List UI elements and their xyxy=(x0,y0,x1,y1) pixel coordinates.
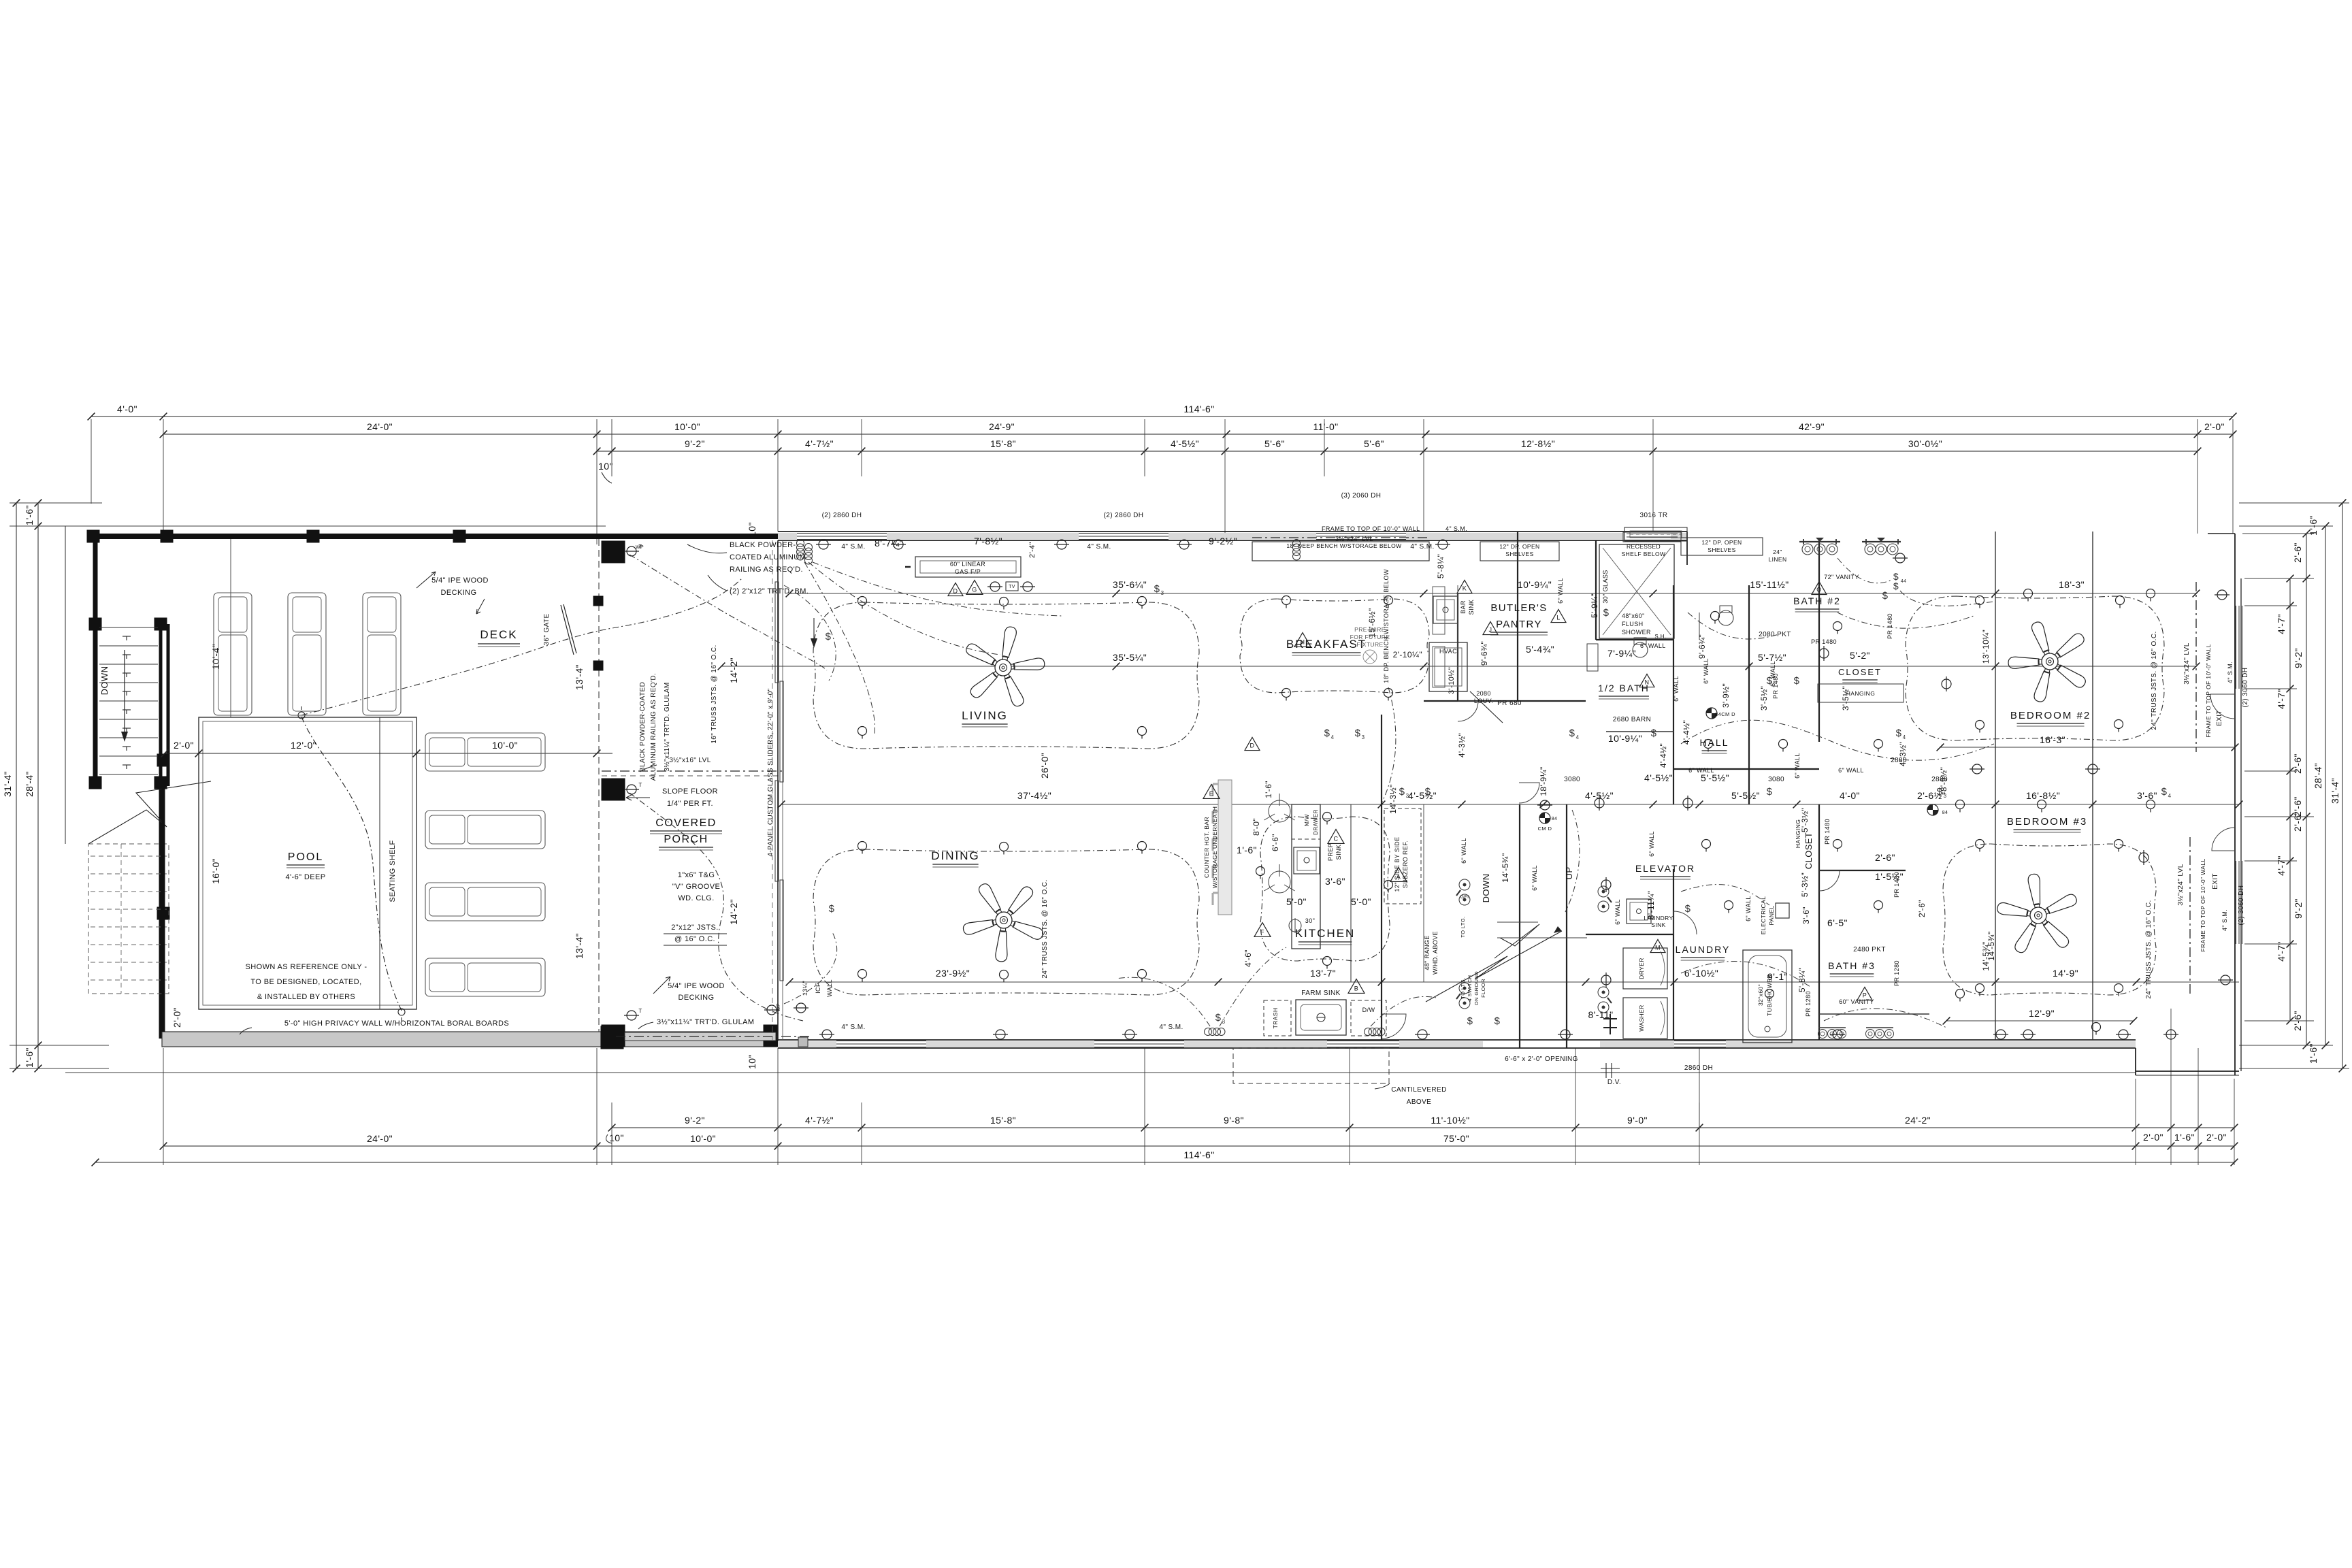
svg-text:1/4" PER FT.: 1/4" PER FT. xyxy=(667,800,713,808)
svg-text:60" VANITY: 60" VANITY xyxy=(1839,998,1874,1005)
upper stair treads xyxy=(99,627,158,628)
svg-text:6'-6": 6'-6" xyxy=(1271,834,1280,851)
TV outlet symbols above fireplace xyxy=(987,582,1002,591)
stair shaft break line xyxy=(1494,924,1539,958)
svg-text:114'-6": 114'-6" xyxy=(1183,1149,1214,1160)
right dim col 28'-4" xyxy=(2325,526,2326,1045)
porch dashed rail line xyxy=(598,539,600,1032)
svg-text:TO BE DESIGNED, LOCATED,: TO BE DESIGNED, LOCATED, xyxy=(250,978,361,986)
svg-text:FRAME TO TOP OF 10'-0" WALL: FRAME TO TOP OF 10'-0" WALL xyxy=(1322,525,1420,532)
svg-text:SEATING SHELF: SEATING SHELF xyxy=(389,840,397,902)
svg-text:9'-0": 9'-0" xyxy=(1627,1115,1648,1126)
svg-text:26'-0": 26'-0" xyxy=(1039,753,1050,779)
svg-text:4'-7½": 4'-7½" xyxy=(805,1115,834,1126)
svg-text:14'-5¾": 14'-5¾" xyxy=(1501,853,1510,882)
svg-text:5'-4¾": 5'-4¾" xyxy=(1526,644,1554,655)
gate rail posts xyxy=(593,596,603,606)
svg-text:5'-6": 5'-6" xyxy=(1264,438,1285,449)
svg-text:2'-0": 2'-0" xyxy=(2204,421,2225,432)
right dim col 31'-4" xyxy=(2342,503,2343,1068)
svg-text:SHELVES: SHELVES xyxy=(1505,551,1533,557)
svg-text:BUTLER'S: BUTLER'S xyxy=(1490,602,1547,614)
wall outlets top wall xyxy=(816,540,831,549)
svg-text:1'-6": 1'-6" xyxy=(2174,1132,2195,1143)
svg-text:24'-0": 24'-0" xyxy=(367,1133,393,1144)
svg-text:& INSTALLED BY OTHERS: & INSTALLED BY OTHERS xyxy=(257,993,355,1001)
wall shower x=2345 xyxy=(1595,540,1597,640)
svg-text:4'-5½": 4'-5½" xyxy=(1171,438,1199,449)
svg-text:FARM SINK: FARM SINK xyxy=(1301,990,1341,997)
svg-text:5'-8¼": 5'-8¼" xyxy=(1797,968,1807,992)
svg-text:10'-9¼": 10'-9¼" xyxy=(1518,579,1552,590)
fanning wires from slider corner xyxy=(808,562,1000,655)
house right wall xyxy=(2234,534,2236,1075)
svg-text:4" S.M.: 4" S.M. xyxy=(2221,909,2228,931)
svg-text:3016 TR: 3016 TR xyxy=(1640,512,1668,519)
wall outlets bottom wall xyxy=(819,1030,834,1039)
svg-text:$: $ xyxy=(1882,590,1889,602)
svg-text:D: D xyxy=(953,588,958,595)
svg-text:16" TRUSS JSTS. @ 16" O.C.: 16" TRUSS JSTS. @ 16" O.C. xyxy=(710,644,718,743)
lower stair dashed outline xyxy=(88,844,169,994)
svg-text:28'-4": 28'-4" xyxy=(24,771,35,797)
svg-text:$: $ xyxy=(1685,903,1691,915)
svg-text:$: $ xyxy=(1399,786,1405,798)
svg-text:$: $ xyxy=(1569,728,1575,739)
ceiling can lights kitchen/breakfast xyxy=(1282,596,1291,605)
svg-text:24" TRUSS JSTS. @ 16" O.C.: 24" TRUSS JSTS. @ 16" O.C. xyxy=(2151,631,2158,730)
wall hvac x=2142 upper xyxy=(1457,593,1458,701)
svg-text:6" WALL: 6" WALL xyxy=(1703,658,1710,684)
svg-text:T: T xyxy=(638,782,642,788)
svg-text:10'-0": 10'-0" xyxy=(492,740,518,751)
svg-text:14'-9": 14'-9" xyxy=(2053,968,2078,979)
svg-text:3'-5½": 3'-5½" xyxy=(1759,686,1769,710)
svg-text:DRAWER: DRAWER xyxy=(1313,809,1319,835)
svg-text:EXIT: EXIT xyxy=(2216,710,2223,726)
svg-text:ALUMINUM RAILING AS REQ'D.: ALUMINUM RAILING AS REQ'D. xyxy=(650,673,657,781)
deck north wall posts xyxy=(87,530,99,542)
house bottom windows xyxy=(836,1041,926,1042)
svg-text:48"x60": 48"x60" xyxy=(1622,612,1645,619)
trash dashed box xyxy=(1264,1000,1291,1036)
svg-text:PANEL: PANEL xyxy=(1768,905,1775,925)
svg-text:10'-4": 10'-4" xyxy=(210,644,221,670)
laundry-bath3 wires xyxy=(1681,885,1769,905)
bath2 sinks on top wall xyxy=(1802,544,1813,555)
svg-text:6" WALL: 6" WALL xyxy=(1614,899,1621,925)
svg-text:H: H xyxy=(1301,638,1305,645)
bath2 wc xyxy=(1718,610,1733,625)
svg-text:PR 1280: PR 1280 xyxy=(1805,991,1812,1017)
svg-text:E: E xyxy=(1209,790,1213,797)
svg-text:$: $ xyxy=(1767,786,1773,798)
HANGING box closet1 xyxy=(1818,684,1904,702)
cantilever dashed rect xyxy=(1233,1048,1389,1083)
svg-text:$: $ xyxy=(2161,786,2168,798)
svg-text:3'-6": 3'-6" xyxy=(1325,876,1345,887)
house bottom wall gray fill segments xyxy=(778,1041,836,1047)
svg-text:CANTILEVERED: CANTILEVERED xyxy=(1391,1086,1447,1094)
svg-text:COATED ALUMINUM: COATED ALUMINUM xyxy=(730,553,806,561)
ceiling fan bedroom3 xyxy=(1996,873,2078,954)
svg-text:CLOSET: CLOSET xyxy=(1838,667,1882,677)
svg-text:3'-10½": 3'-10½" xyxy=(1448,667,1456,694)
dryer box xyxy=(1623,948,1667,989)
svg-text:31'-4": 31'-4" xyxy=(2330,778,2340,804)
bottom dim extension lines xyxy=(163,1048,164,1165)
svg-text:SLOPE FLOOR: SLOPE FLOOR xyxy=(662,787,718,796)
svg-text:4: 4 xyxy=(1331,734,1335,740)
porch corner post SW xyxy=(602,1025,625,1047)
svg-text:RAILING AS REQ'D.: RAILING AS REQ'D. xyxy=(730,566,803,574)
svg-text:4: 4 xyxy=(1903,734,1906,740)
wall kitchen/stair x=2030 xyxy=(1381,715,1382,1040)
svg-text:8'-0": 8'-0" xyxy=(1252,818,1261,836)
bottom-right step-out walls xyxy=(2135,1048,2136,1075)
svg-text:4'-3½": 4'-3½" xyxy=(1457,733,1467,757)
stair right rail (double) xyxy=(159,624,163,1039)
right dim col 4'-7"/9'-2" stack xyxy=(2289,578,2291,1021)
bedroom2 electrical loop xyxy=(1906,596,2164,740)
svg-text:S.H.: S.H. xyxy=(1654,634,1666,640)
kitchen electrical loop xyxy=(1260,817,1390,961)
svg-text:B: B xyxy=(1354,985,1358,992)
svg-text:GAS F/P: GAS F/P xyxy=(955,568,981,575)
svg-text:16'-3": 16'-3" xyxy=(2040,734,2065,745)
svg-text:$: $ xyxy=(826,631,832,642)
svg-text:4'-5½": 4'-5½" xyxy=(1408,790,1437,801)
svg-text:10'-9¼": 10'-9¼" xyxy=(1608,733,1642,744)
svg-text:3: 3 xyxy=(1944,793,1947,799)
porch corner post NE xyxy=(602,541,625,563)
svg-text:3½"x24" LVL: 3½"x24" LVL xyxy=(2177,864,2185,905)
svg-text:4" S.M.: 4" S.M. xyxy=(2227,661,2234,683)
house top wall (double line) xyxy=(778,531,1687,532)
site line y=1576 full width xyxy=(65,1072,2136,1073)
svg-text:5'-0": 5'-0" xyxy=(1351,896,1371,907)
wall x=2570 upper xyxy=(1748,585,1750,804)
bedroom3 electrical loop xyxy=(1943,844,2156,995)
LVL dash-dot bedroom2 x=3227 xyxy=(2195,582,2197,752)
svg-text:DOWN: DOWN xyxy=(99,666,110,696)
svg-text:TRASH: TRASH xyxy=(1272,1008,1279,1029)
svg-text:16'-8½": 16'-8½" xyxy=(2026,790,2060,801)
svg-text:11'-10½": 11'-10½" xyxy=(1431,1115,1469,1126)
bar sink xyxy=(1433,596,1458,623)
svg-text:SHOWER: SHOWER xyxy=(1622,629,1651,636)
pantry counters (west wall) xyxy=(1457,585,1458,687)
svg-text:EXIT: EXIT xyxy=(2212,873,2219,889)
svg-text:9'-6¾": 9'-6¾" xyxy=(1480,641,1489,666)
right dim horizontal extension lines xyxy=(2239,502,2349,504)
coil window symbols (bottom wall) xyxy=(1205,1028,1212,1036)
svg-text:14'-2": 14'-2" xyxy=(728,899,739,925)
wall pantry top y=1030 xyxy=(1424,700,1586,702)
svg-text:1'-6": 1'-6" xyxy=(1237,845,1257,855)
svg-text:4'-7": 4'-7" xyxy=(2276,941,2287,962)
lower stair side dashed xyxy=(120,844,122,994)
svg-text:9'-2": 9'-2" xyxy=(2293,898,2304,919)
svg-text:4: 4 xyxy=(2168,793,2172,799)
interior dim line y=872 35'-6 1/4" etc xyxy=(789,593,2196,594)
svg-text:114'-6": 114'-6" xyxy=(1183,404,1214,414)
pocket door arcs xyxy=(1699,612,1700,640)
svg-text:$: $ xyxy=(1154,583,1160,595)
smoke/cm detectors xyxy=(1539,813,1550,823)
svg-text:SINK: SINK xyxy=(1468,600,1475,615)
shower 48x60 xyxy=(1599,544,1674,638)
svg-text:2'-0": 2'-0" xyxy=(174,740,194,751)
svg-text:30" GLASS: 30" GLASS xyxy=(1602,570,1609,603)
porch SE post xyxy=(764,1025,778,1047)
svg-text:6'-10½": 6'-10½" xyxy=(1684,968,1718,979)
svg-text:5'-6": 5'-6" xyxy=(1364,438,1384,449)
svg-text:18'-9¼": 18'-9¼" xyxy=(1539,766,1548,796)
wall bath3 y=1490 xyxy=(1819,1013,1929,1015)
svg-text:ELEVATOR: ELEVATOR xyxy=(1635,863,1695,874)
wall closet x=2673 lower xyxy=(1818,804,1820,1040)
svg-text:FLUSH: FLUSH xyxy=(1622,621,1644,627)
svg-text:(2) 2"x12" TRT'D. BM.: (2) 2"x12" TRT'D. BM. xyxy=(730,587,808,595)
svg-text:18'-3": 18'-3" xyxy=(2059,579,2085,590)
wall pantry x=2230 upper xyxy=(1517,532,1518,701)
svg-text:3: 3 xyxy=(1362,734,1365,740)
barn door track xyxy=(1606,731,1674,732)
svg-text:84CM D: 84CM D xyxy=(1715,711,1735,717)
svg-text:J: J xyxy=(1489,627,1492,634)
svg-text:HANGING: HANGING xyxy=(1846,690,1875,697)
living entry arrow xyxy=(813,618,815,645)
svg-text:PREP: PREP xyxy=(1327,843,1334,861)
svg-text:1/2 BATH: 1/2 BATH xyxy=(1598,683,1650,693)
svg-text:FIXTURE: FIXTURE xyxy=(1356,641,1383,648)
butlers pantry shelves box xyxy=(1480,542,1559,561)
svg-text:(3) 2060 DH: (3) 2060 DH xyxy=(1341,492,1382,500)
svg-text:4'-0": 4'-0" xyxy=(1840,790,1860,801)
svg-text:2880: 2880 xyxy=(1891,757,1907,764)
svg-text:5'-9¼": 5'-9¼" xyxy=(1590,593,1599,618)
porch mid post W xyxy=(602,779,625,800)
kitchen letter triangles xyxy=(1203,785,1220,799)
butlers pantry open shelves right xyxy=(1681,538,1763,555)
grid line x=2092 lower xyxy=(1423,804,1424,982)
svg-text:37'-4½": 37'-4½" xyxy=(1017,790,1051,801)
tub 32x60 xyxy=(1743,950,1792,1043)
svg-text:14'-2": 14'-2" xyxy=(728,657,739,683)
svg-text:D.V.: D.V. xyxy=(1607,1079,1621,1086)
svg-text:PR 1480: PR 1480 xyxy=(1886,613,1893,639)
svg-text:6" WALL: 6" WALL xyxy=(1745,896,1752,921)
right wall windows (2) 3060 DH xyxy=(2236,606,2237,689)
svg-text:BATH #3: BATH #3 xyxy=(1828,960,1876,971)
svg-text:7'-9¼": 7'-9¼" xyxy=(1607,648,1636,659)
svg-text:M/W: M/W xyxy=(1304,814,1310,826)
svg-text:GFI: GFI xyxy=(1460,895,1469,900)
svg-text:15'-8": 15'-8" xyxy=(990,1115,1016,1126)
svg-text:10": 10" xyxy=(747,1054,757,1069)
svg-text:4'-4½": 4'-4½" xyxy=(1659,743,1668,768)
ceiling can lights hall/baths xyxy=(1704,740,1713,749)
svg-text:2'-6": 2'-6" xyxy=(2292,811,2303,832)
svg-text:BEDROOM #3: BEDROOM #3 xyxy=(2007,816,2087,828)
ceiling can lights living xyxy=(858,597,867,606)
svg-text:FRAME TO TOP OF 10'-0" WALL: FRAME TO TOP OF 10'-0" WALL xyxy=(2200,858,2206,951)
svg-text:WALL: WALL xyxy=(826,979,833,997)
stair sconce symbols xyxy=(122,636,131,637)
wall laundry top y=1373 xyxy=(1586,934,1673,935)
svg-text:6" WALL: 6" WALL xyxy=(1838,767,1864,774)
wall shower bottom y=940 xyxy=(1596,639,1673,640)
svg-text:84: 84 xyxy=(1552,817,1558,821)
top dim row1 4'-0" + 114'-6" xyxy=(91,416,2233,417)
svg-text:ICF: ICF xyxy=(815,983,821,994)
svg-text:30'-0½": 30'-0½" xyxy=(1908,438,1942,449)
svg-text:LAUNDRY: LAUNDRY xyxy=(1676,944,1731,955)
svg-text:@ 16" O.C.: @ 16" O.C. xyxy=(674,935,715,943)
svg-text:28'-4": 28'-4" xyxy=(2313,763,2323,789)
laundry sink xyxy=(1627,899,1651,924)
ceiling fan living xyxy=(964,626,1045,708)
svg-text:6" WALL: 6" WALL xyxy=(1673,676,1680,702)
breakfast bench (18in deep w/storage) xyxy=(1252,542,1429,561)
svg-text:3'-6": 3'-6" xyxy=(2137,790,2157,801)
svg-text:BLACK POWDER-COATED: BLACK POWDER-COATED xyxy=(639,682,647,772)
pool seating shelf divider xyxy=(379,717,380,1009)
svg-text:ABOVE: ABOVE xyxy=(1407,1098,1431,1106)
svg-text:72" VANITY: 72" VANITY xyxy=(1824,574,1859,581)
svg-text:13'-10¼": 13'-10¼" xyxy=(1981,630,1991,664)
svg-text:PR 1480: PR 1480 xyxy=(1824,819,1831,845)
svg-text:13'-7": 13'-7" xyxy=(1310,968,1336,979)
svg-text:9'-8": 9'-8" xyxy=(1224,1115,1244,1126)
svg-text:5/4" IPE WOOD: 5/4" IPE WOOD xyxy=(668,982,725,990)
svg-text:$: $ xyxy=(1651,728,1657,739)
svg-text:1"x6" T&G: 1"x6" T&G xyxy=(678,871,715,879)
4-panel slider door panels xyxy=(775,582,779,683)
svg-text:14'-3½": 14'-3½" xyxy=(1388,784,1398,813)
svg-text:4: 4 xyxy=(1576,734,1580,740)
svg-text:TV: TV xyxy=(1009,585,1015,589)
interior dim line y=979 35'-5 1/4" xyxy=(721,666,2196,667)
wall bedrooms x=3075 xyxy=(2092,532,2093,1040)
svg-text:(2) 2860 DH: (2) 2860 DH xyxy=(822,512,862,519)
kitchen island xyxy=(1292,804,1320,949)
porch wires S-curve xyxy=(630,793,803,1021)
svg-text:7'-8½": 7'-8½" xyxy=(974,536,1002,546)
svg-text:4" S.M.: 4" S.M. xyxy=(841,1024,865,1031)
wall bedroom-wing x=2932 xyxy=(1995,532,1996,1040)
svg-text:2880: 2880 xyxy=(1931,776,1948,783)
svg-text:4 SWITCH: 4 SWITCH xyxy=(1467,975,1473,1001)
svg-text:5'-0" HIGH PRIVACY WALL W/HORI: 5'-0" HIGH PRIVACY WALL W/HORIZONTAL BOR… xyxy=(284,1019,509,1028)
bottom dim rowC 114'-6" xyxy=(95,1162,2234,1163)
svg-text:10'-0": 10'-0" xyxy=(690,1133,716,1144)
svg-text:SINK: SINK xyxy=(1651,921,1665,928)
subzero fridge dashed box xyxy=(1384,808,1421,904)
pool outline xyxy=(199,717,416,1009)
svg-text:SHELF BELOW: SHELF BELOW xyxy=(1622,551,1666,557)
svg-text:PANTRY: PANTRY xyxy=(1496,619,1542,630)
svg-text:1'-6": 1'-6" xyxy=(2308,515,2319,536)
svg-text:G: G xyxy=(972,586,977,593)
svg-text:4" S.M.: 4" S.M. xyxy=(1410,543,1434,551)
svg-text:3'-5½": 3'-5½" xyxy=(1841,686,1850,710)
farm sink counter xyxy=(1296,1000,1346,1035)
svg-text:44: 44 xyxy=(1901,579,1907,584)
svg-text:$: $ xyxy=(1494,1015,1501,1027)
deck west wall (thick) xyxy=(93,534,98,627)
svg-text:ELECTRICAL: ELECTRICAL xyxy=(1760,896,1767,934)
svg-text:$: $ xyxy=(1603,607,1610,619)
svg-text:$: $ xyxy=(1896,728,1902,739)
svg-text:2'-6": 2'-6" xyxy=(2292,753,2303,774)
svg-text:2'-10¼": 2'-10¼" xyxy=(1393,650,1422,659)
svg-text:4'-7": 4'-7" xyxy=(2276,614,2287,634)
svg-text:5'-0": 5'-0" xyxy=(1286,896,1307,907)
svg-text:BAR: BAR xyxy=(1460,600,1467,614)
pool light dash-dot curve xyxy=(301,717,402,1011)
mw drawer dashed xyxy=(1292,804,1320,839)
svg-text:C: C xyxy=(1334,835,1339,842)
svg-text:12'-8½": 12'-8½" xyxy=(1521,438,1555,449)
svg-text:CM D: CM D xyxy=(1538,826,1552,832)
svg-text:4'-6" DEEP: 4'-6" DEEP xyxy=(286,873,326,881)
svg-text:SHOWN AS REFERENCE ONLY -: SHOWN AS REFERENCE ONLY - xyxy=(246,963,367,971)
svg-text:PORCH: PORCH xyxy=(664,834,708,845)
svg-text:84: 84 xyxy=(1942,811,1948,815)
svg-text:$: $ xyxy=(1324,728,1330,739)
LVL dash-dot bedroom3 x=3218 xyxy=(2189,837,2191,997)
svg-text:3: 3 xyxy=(1222,1019,1226,1025)
kitchen counter bar (gray) xyxy=(1218,780,1232,915)
svg-text:KITCHEN: KITCHEN xyxy=(1295,927,1356,940)
svg-text:2480 PKT: 2480 PKT xyxy=(1853,946,1886,953)
svg-text:DOWN: DOWN xyxy=(1481,874,1491,903)
svg-text:2'-4": 2'-4" xyxy=(1028,542,1036,558)
svg-text:23'-9½": 23'-9½" xyxy=(936,968,970,979)
svg-text:4'-7": 4'-7" xyxy=(2276,855,2287,876)
breakfast electrical loop xyxy=(1240,599,1429,693)
wall laundry x=2459 xyxy=(1673,869,1674,1040)
svg-text:12'-0": 12'-0" xyxy=(291,740,316,751)
svg-text:2'-0": 2'-0" xyxy=(2206,1132,2227,1143)
svg-text:(2) 2860 DH: (2) 2860 DH xyxy=(1104,512,1144,519)
halfbath vanity xyxy=(1587,644,1598,671)
stair break line xyxy=(88,781,211,844)
svg-text:12" SIDE BY SIDE: 12" SIDE BY SIDE xyxy=(1394,837,1401,892)
slider dashed guide line xyxy=(772,540,773,1040)
dining electrical loop xyxy=(813,849,1199,995)
svg-text:4'-7½": 4'-7½" xyxy=(805,438,834,449)
svg-text:4'-0": 4'-0" xyxy=(117,404,137,414)
left dim horizontal extension lines xyxy=(10,502,102,504)
svg-text:5'-2": 5'-2" xyxy=(1850,650,1870,661)
svg-text:15'-8": 15'-8" xyxy=(990,438,1016,449)
svg-text:32"x60": 32"x60" xyxy=(1757,984,1764,1006)
svg-text:6" WALL: 6" WALL xyxy=(1557,578,1564,604)
svg-text:W/HD. ABOVE: W/HD. ABOVE xyxy=(1432,931,1439,975)
svg-text:SHELVES: SHELVES xyxy=(1708,546,1735,553)
svg-text:LIVING: LIVING xyxy=(962,709,1008,722)
svg-text:5'-3½": 5'-3½" xyxy=(1800,808,1810,832)
svg-text:4'-4½": 4'-4½" xyxy=(1682,720,1691,745)
svg-text:3½"x24" LVL: 3½"x24" LVL xyxy=(2183,642,2191,684)
svg-text:42'-9": 42'-9" xyxy=(1799,421,1825,432)
ceiling fan bedroom2 xyxy=(2008,621,2088,703)
svg-text:POOL: POOL xyxy=(288,851,323,863)
svg-text:13'-4": 13'-4" xyxy=(574,664,585,690)
